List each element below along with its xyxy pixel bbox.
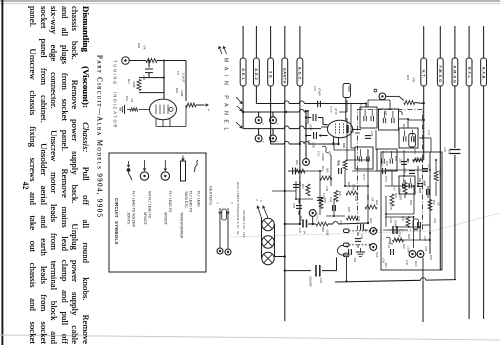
page left edge line: [1, 0, 3, 345]
valve pin drops: [333, 143, 335, 150]
legend fly lead to spigot symbol: [161, 172, 169, 180]
svg-text:R32: R32: [385, 160, 389, 166]
local vertical wire: [305, 111, 307, 158]
svg-text:A.G.C.: A.G.C.: [316, 212, 320, 222]
fly lead arrows at main panel bends: [236, 97, 242, 104]
resistor R53: [343, 160, 347, 170]
legend no fly lead symbol: [140, 172, 148, 180]
svg-text:A.E.2: A.E.2: [254, 68, 258, 80]
svg-text:R24: R24: [394, 192, 398, 198]
wire H.T. continues: [423, 120, 425, 160]
resistor R54: [413, 158, 423, 162]
svg-text:6: 6: [275, 123, 279, 125]
svg-text:FLY LEAD.: FLY LEAD.: [197, 191, 201, 208]
wire EARTH bus: [284, 86, 286, 321]
svg-text:R28: R28: [347, 206, 351, 212]
capacitor C55: [417, 183, 423, 185]
main panel arrows: [219, 47, 222, 55]
svg-text:C44: C44: [354, 196, 358, 202]
svg-text:R46: R46: [375, 199, 379, 205]
svg-text:R20: R20: [307, 139, 311, 145]
svg-text:C39: C39: [325, 186, 329, 192]
svg-text:4: 4: [216, 202, 220, 204]
svg-text:100K: 100K: [326, 229, 330, 237]
chassis ground in AF section: [360, 248, 362, 252]
resistor R34: [403, 183, 407, 194]
svg-text:4700P: 4700P: [318, 88, 322, 96]
svg-text:R58: R58: [321, 226, 325, 232]
svg-text:5CB: 5CB: [375, 252, 379, 258]
caption: [96, 55, 104, 218]
spigot 4: [255, 117, 262, 124]
wire A.F.B. run: [483, 86, 485, 319]
faint bottom page line: [0, 335, 500, 340]
wire stub into T1: [365, 104, 367, 108]
heater spigot 5: [225, 249, 231, 255]
circuit symbols legend box: [109, 153, 206, 272]
capacitor C26 .04: [302, 220, 304, 228]
capacitor C59 vertical: [296, 205, 302, 207]
svg-text:R37: R37: [402, 243, 406, 249]
svg-text:C21: C21: [380, 161, 384, 167]
resistor R49 100K: [186, 103, 196, 107]
svg-text:H.T.: H.T.: [421, 70, 425, 79]
tag strip pill 100: [409, 134, 416, 148]
resistor R41 220K: [137, 80, 141, 91]
capacitor C25: [401, 161, 407, 163]
svg-text:SPIGOT.: SPIGOT.: [143, 212, 147, 225]
svg-text:A.E.1: A.E.1: [241, 68, 245, 80]
svg-text:CIRCUIT SYMBOLS: CIRCUIT SYMBOLS: [114, 198, 119, 245]
tag strip pill 180: [343, 84, 351, 98]
svg-text:3 E: 3 E: [268, 71, 272, 78]
wire to main panel A.E.1: [242, 26, 244, 58]
svg-text:TAGS ETC.: TAGS ETC.: [184, 191, 188, 209]
wire stub grid cap: [307, 111, 309, 124]
svg-text:470P: 470P: [309, 124, 313, 131]
electrolytic C63 2000P: [392, 226, 394, 234]
dial lamp wire: [261, 218, 263, 259]
svg-text:R35: R35: [429, 254, 433, 260]
svg-text:E.M.87: E.M.87: [182, 72, 186, 83]
dial lamp 2: [262, 236, 274, 248]
wire to main panel A.F.B.: [483, 26, 485, 58]
svg-text:C59: C59: [292, 203, 296, 209]
svg-text:F.M.S.G: F.M.S.G: [438, 65, 442, 82]
svg-text:C53: C53: [415, 157, 419, 163]
svg-text:½ V9: ½ V9: [329, 106, 333, 113]
svg-text:HEATERS.: HEATERS.: [209, 186, 213, 206]
svg-text:JOINTS.: JOINTS.: [127, 212, 131, 225]
svg-text:1·5K: 1·5K: [312, 142, 316, 149]
spigot 6: [270, 117, 277, 124]
wire to main panel R.F.L.: [468, 26, 470, 58]
resistor R19 47K: [423, 86, 425, 120]
svg-text:C50: C50: [351, 128, 355, 134]
inner wire column: [429, 152, 431, 254]
svg-text:C51: C51: [339, 220, 343, 226]
svg-text:TUNING INDICATOR: TUNING INDICATOR: [113, 60, 118, 129]
H.T. return wire bottom: [335, 280, 421, 282]
svg-text:R40: R40: [137, 42, 141, 49]
capacitor C61 2000MF: [315, 265, 317, 277]
IF transformer T5: [399, 128, 418, 148]
svg-text:R33: R33: [369, 217, 373, 223]
A.G.C. wire row: [285, 223, 301, 225]
resistor R58 vertical: [319, 198, 323, 209]
hook wire: [337, 245, 348, 255]
screened box dash-dot outline: [358, 110, 423, 231]
heater fuse pill: [222, 209, 227, 220]
legend no fly lead lead: [144, 160, 146, 171]
wire row 191: [272, 190, 296, 192]
svg-text:5: 5: [230, 202, 234, 204]
svg-text:C37: C37: [403, 168, 407, 174]
connector pill A.E.2: [254, 58, 260, 86]
capacitor C21: [382, 168, 384, 174]
svg-text:C20: C20: [405, 260, 409, 266]
spigot 5: [255, 135, 262, 142]
capacitor C28: [348, 249, 350, 255]
cathode wire to ground: [139, 108, 150, 110]
spigot 7: [270, 135, 277, 142]
svg-text:MAIN PANEL: MAIN PANEL: [223, 58, 229, 135]
wire to anode load: [164, 60, 186, 62]
capacitor C62 .002: [449, 149, 460, 151]
wire to main panel A.M.S.G: [454, 26, 456, 58]
svg-text:R39: R39: [402, 123, 406, 129]
svg-text:IFT3: IFT3: [384, 175, 388, 183]
tuning terminal: [122, 57, 130, 65]
svg-text:A.F.B.: A.F.B.: [481, 67, 485, 81]
heater spigot 4: [217, 248, 223, 254]
svg-text:R29: R29: [338, 190, 342, 196]
IF transformer T3: [355, 147, 373, 169]
capacitor C24: [390, 249, 392, 255]
svg-text:47K: 47K: [412, 77, 416, 83]
svg-text:VIKING 6·5v ·15a: VIKING 6·5v ·15a: [242, 210, 246, 238]
wire row 133: [355, 132, 360, 134]
IF transformer T2: [379, 109, 399, 130]
triode-indicator valve V8 EM87: [150, 99, 177, 120]
connector pill A.E.1: [240, 58, 246, 86]
svg-text:220K: 220K: [132, 81, 136, 89]
resistor R40 1M: [146, 59, 157, 63]
wire to main panel A.G.C.: [299, 26, 301, 58]
wire to main panel EARTH: [284, 26, 286, 58]
wire 3E bend row 144: [270, 86, 272, 144]
svg-text:6F18: 6F18: [334, 108, 338, 115]
svg-text:D1A: D1A: [414, 260, 418, 267]
tag lower2: [344, 253, 350, 257]
capacitor C23: [360, 224, 362, 230]
svg-text:C35: C35: [360, 234, 364, 240]
wire A.E.2 bend row 103.5: [255, 86, 257, 104]
capacitor C19 row: [306, 135, 311, 137]
wire T1 feed: [367, 100, 369, 107]
resistor R21: [320, 176, 332, 180]
group board outline: [381, 152, 442, 270]
connector pill F.M.S.G: [437, 58, 443, 86]
svg-text:100K: 100K: [352, 184, 356, 192]
svg-text:50: 50: [428, 238, 432, 242]
svg-text:R54: R54: [413, 148, 417, 154]
svg-text:R25: R25: [401, 215, 405, 221]
capacitor C27: [422, 168, 428, 170]
svg-text:NO FLY LEAD TO: NO FLY LEAD TO: [148, 191, 152, 219]
svg-text:R19: R19: [406, 74, 410, 81]
spigot bottom row 2: [417, 251, 424, 258]
resistor R24: [390, 194, 394, 206]
capacitor C20: [338, 168, 340, 174]
capacitor pair on row 171: [288, 170, 291, 172]
svg-text:1M: 1M: [143, 45, 147, 50]
capacitor C33: [293, 184, 299, 186]
connector pill H.T.: [421, 58, 427, 86]
capacitor C18: [317, 101, 319, 107]
page number 42: [21, 182, 30, 190]
svg-text:5: 5: [261, 141, 265, 143]
svg-text:1M: 1M: [130, 98, 134, 103]
feedback loop with R41: [149, 77, 164, 79]
svg-text:5: 5: [259, 200, 263, 202]
resistor R56: [316, 222, 328, 226]
svg-text:C55: C55: [422, 180, 426, 186]
legend transformer tag symbol: [181, 161, 186, 181]
resistor R51: [306, 184, 310, 196]
svg-text:C24: C24: [387, 243, 391, 249]
svg-text:120K: 120K: [407, 246, 411, 254]
legend solder joint symbol: [127, 168, 131, 172]
svg-text:u: u: [207, 109, 211, 111]
svg-text:22K: 22K: [399, 158, 403, 164]
legend fly lead to spigot lead: [164, 160, 166, 171]
capacitor C45: [148, 61, 150, 68]
svg-text:180Ω: 180Ω: [347, 86, 351, 93]
svg-text:R36: R36: [407, 233, 411, 239]
connector pill 3 E: [268, 58, 274, 86]
wire from terminal: [129, 60, 146, 62]
svg-text:FLY LEAD TO SOLDER: FLY LEAD TO SOLDER: [132, 191, 136, 228]
resistor R28: [347, 216, 358, 220]
dial lamp feed 5: [274, 224, 276, 257]
svg-text:R60: R60: [409, 199, 413, 205]
svg-text:C29: C29: [370, 131, 374, 137]
svg-text:C23: C23: [357, 216, 361, 222]
resistor R26: [393, 238, 404, 242]
dial lamp feed 4: [258, 206, 262, 218]
wire to main panel F.M.S.G: [439, 26, 441, 58]
spigot bottom row 1: [409, 251, 416, 258]
svg-text:C30: C30: [382, 258, 386, 264]
svg-text:56K: 56K: [399, 195, 403, 201]
svg-text:R27: R27: [432, 199, 436, 205]
legend solder joint lead: [128, 161, 130, 167]
wire A.M.S.G run with C62: [454, 86, 456, 148]
svg-text:FLY LEAD TO: FLY LEAD TO: [168, 191, 172, 213]
svg-text:R.F.L.: R.F.L.: [467, 67, 471, 80]
connector pill A.G.C.: [297, 58, 303, 86]
output arrow u: [203, 104, 208, 106]
valve pin stubs: [155, 119, 157, 127]
svg-text:R49: R49: [175, 87, 179, 93]
wire grid row 117.5 with capacitor C16: [306, 117, 311, 119]
connector pill R.F.L.: [466, 58, 472, 86]
resistor R27: [428, 200, 432, 211]
wire to main panel 3 E: [270, 26, 272, 58]
dial lamp 1: [262, 218, 274, 230]
svg-text:M4: M4: [353, 257, 357, 262]
svg-text:C26: C26: [298, 228, 302, 234]
svg-text:IFT2: IFT2: [362, 173, 366, 181]
fly lead squiggles: [322, 146, 329, 153]
svg-text:2000P: 2000P: [394, 220, 398, 228]
dial lamp 3: [262, 252, 274, 264]
connector pill EARTH: [282, 58, 288, 86]
capacitor C35: [355, 238, 361, 240]
svg-text:R22: R22: [347, 181, 351, 187]
svg-text:C19: C19: [317, 151, 321, 157]
svg-text:V12: V12: [393, 186, 397, 191]
wiring mesh in IF section: [350, 104, 352, 148]
svg-text:R41: R41: [127, 78, 131, 84]
svg-text:A.G.C.: A.G.C.: [298, 67, 302, 82]
svg-text:R30: R30: [394, 155, 398, 161]
svg-text:4700P: 4700P: [321, 153, 325, 161]
wire smoothing row: [285, 270, 311, 272]
tag and fly lead to spigot upper: [344, 229, 350, 233]
svg-text:C33: C33: [298, 181, 302, 187]
spigot H.T. fly lead: [379, 93, 386, 100]
wire to main panel H.T.: [423, 26, 425, 58]
resistor R22: [346, 191, 358, 195]
svg-text:R42: R42: [125, 95, 129, 101]
svg-text:TRANSFORMER: TRANSFORMER: [180, 212, 184, 239]
connector pill A.M.S.G: [452, 58, 458, 86]
page top edge shadow: [0, 0, 500, 2]
svg-text:C63: C63: [389, 218, 393, 224]
wire mesh 2: [295, 181, 297, 199]
connector pill A.F.B.: [481, 58, 487, 86]
wire to main panel A.E.2: [255, 26, 257, 58]
svg-text:2000MF: 2000MF: [309, 276, 313, 287]
resistor R25: [406, 217, 410, 228]
svg-text:47P: 47P: [328, 151, 332, 156]
svg-text:C41: C41: [359, 104, 363, 110]
svg-text:7: 7: [275, 141, 279, 143]
svg-text:C18: C18: [313, 86, 317, 92]
svg-text:R48: R48: [299, 215, 303, 221]
svg-text:V8: V8: [176, 71, 180, 75]
faint scan crease line: [230, 231, 432, 237]
svg-text:R57: R57: [438, 169, 442, 175]
svg-text:R58: R58: [323, 197, 327, 203]
wire A.G.C. drop: [299, 86, 301, 224]
svg-text:C62: C62: [443, 147, 447, 153]
resistor R23: [365, 205, 377, 209]
svg-text:100K: 100K: [180, 90, 184, 98]
wire A.E.1 bend rows 112 and 128.6: [242, 86, 244, 112]
svg-text:SPIGOT.: SPIGOT.: [164, 212, 168, 225]
capacitor C37: [409, 170, 415, 172]
legend transformer tag lead: [182, 156, 184, 161]
svg-text:·002: ·002: [448, 149, 452, 155]
svg-text:A.M.S.G: A.M.S.G: [453, 65, 457, 83]
svg-text:R23: R23: [366, 194, 370, 200]
svg-text:C40: C40: [384, 110, 388, 116]
wire F.M.S.G run: [439, 86, 441, 270]
svg-text:C90: C90: [389, 205, 393, 211]
svg-text:R52: R52: [295, 159, 299, 165]
heater lead 4: [219, 208, 221, 214]
paragraph text (rotated 90deg, page was scanned sideways): [28, 6, 91, 344]
svg-text:680: 680: [306, 186, 310, 191]
capacitor C34: [332, 205, 334, 211]
svg-text:DIAL LAMPS VISCOUNT 6·5v ·3a: DIAL LAMPS VISCOUNT 6·5v ·3a: [236, 182, 240, 235]
resistor R57: [434, 171, 438, 181]
spigot C19 node: [303, 159, 310, 166]
svg-text:R53: R53: [337, 159, 341, 165]
svg-text:35W4: 35W4: [398, 188, 402, 195]
svg-text:1M: 1M: [371, 197, 375, 202]
svg-text:C61: C61: [319, 278, 323, 284]
svg-text:C56: C56: [433, 218, 437, 224]
wire to rectifier: [422, 280, 424, 322]
tag and fly lead to spigot lower: [344, 243, 350, 247]
legend fly lead symbol: [194, 160, 198, 172]
wire T2 coupling: [399, 118, 408, 120]
svg-text:680: 680: [326, 168, 330, 173]
wire R.F.L. run: [468, 86, 470, 319]
capacitor C36: [426, 189, 428, 195]
svg-text:C34: C34: [329, 197, 333, 203]
svg-text:EARTH: EARTH: [283, 68, 287, 84]
IF transformer T4: [377, 149, 397, 171]
wire 180 tag to valve: [346, 100, 348, 112]
IF amplifier valve V9 6F18: [327, 120, 352, 137]
capacitor C22: [317, 197, 323, 199]
resistor R29: [334, 191, 338, 202]
capacitor with pill right: [417, 222, 419, 228]
IF transformer T6: [399, 176, 415, 194]
svg-text:C57: C57: [423, 236, 427, 242]
wire grid feed: [157, 60, 164, 62]
svg-text:4: 4: [255, 199, 259, 201]
svg-text:·04: ·04: [303, 230, 307, 234]
wire T5 to H.T.: [407, 120, 409, 128]
IF transformer T1: [360, 107, 377, 128]
heater lead 5: [227, 208, 229, 214]
resistor R52: [295, 169, 305, 173]
spigot A.G.C.: [309, 210, 316, 217]
svg-text:FLY LEAD TO: FLY LEAD TO: [189, 191, 193, 213]
svg-text:R34: R34: [407, 182, 411, 188]
svg-text:R21: R21: [321, 165, 325, 171]
junction dots on bus rows: [284, 223, 286, 225]
capacitor C29: [365, 135, 371, 137]
svg-text:C42: C42: [427, 130, 431, 136]
svg-text:470K: 470K: [398, 231, 402, 239]
svg-text:C58: C58: [424, 246, 428, 252]
svg-text:4: 4: [261, 123, 265, 125]
